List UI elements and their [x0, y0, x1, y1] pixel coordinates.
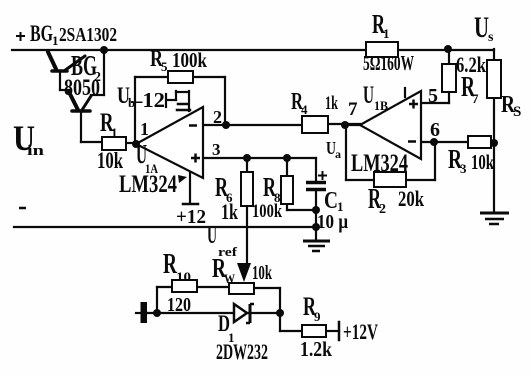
svg-text:10k: 10k [471, 150, 494, 174]
svg-text:+12: +12 [176, 206, 206, 228]
svg-text:2SA1302: 2SA1302 [59, 24, 117, 46]
svg-text:120: 120 [167, 294, 191, 316]
svg-text:1B: 1B [374, 98, 388, 113]
svg-text:U: U [474, 11, 489, 44]
svg-text:–12: –12 [130, 88, 165, 112]
svg-text:8050: 8050 [64, 75, 100, 100]
svg-text:100k: 100k [172, 48, 207, 72]
svg-text:1: 1 [140, 119, 149, 139]
svg-text:3: 3 [212, 140, 221, 159]
svg-text:+12V: +12V [343, 319, 378, 344]
svg-text:U: U [363, 82, 374, 109]
svg-text:5: 5 [161, 59, 168, 74]
svg-text:1k: 1k [325, 93, 338, 114]
svg-text:10k: 10k [97, 148, 123, 173]
svg-text:2: 2 [213, 107, 222, 127]
svg-text:5: 5 [428, 85, 438, 107]
svg-text:1.2k: 1.2k [300, 337, 332, 361]
svg-text:9: 9 [314, 309, 321, 324]
svg-text:1k: 1k [221, 199, 239, 224]
svg-text:a: a [335, 147, 341, 161]
svg-text:10: 10 [176, 269, 191, 284]
svg-text:1: 1 [111, 125, 118, 140]
svg-text:4: 4 [301, 102, 308, 117]
svg-text:3: 3 [460, 161, 467, 176]
svg-text:6: 6 [430, 119, 440, 141]
svg-text:s: s [488, 30, 494, 45]
svg-text:10k: 10k [252, 262, 273, 284]
svg-text:5Ω160W: 5Ω160W [363, 51, 414, 75]
svg-text:LM324: LM324 [119, 171, 177, 198]
svg-text:U: U [207, 222, 217, 249]
svg-text:1: 1 [52, 33, 59, 48]
svg-text:in: in [27, 143, 45, 159]
svg-text:W: W [224, 271, 235, 286]
svg-text:20k: 20k [398, 186, 425, 211]
svg-text:BG: BG [30, 21, 53, 46]
svg-text:2DW232: 2DW232 [216, 339, 268, 364]
svg-text:7: 7 [472, 91, 479, 106]
svg-text:S: S [513, 104, 521, 120]
svg-text:2: 2 [379, 202, 386, 217]
svg-text:1: 1 [383, 26, 390, 41]
svg-text:LM324: LM324 [351, 150, 408, 177]
svg-text:100k: 100k [252, 201, 282, 222]
svg-text:10 μ: 10 μ [317, 211, 349, 233]
svg-text:7: 7 [348, 99, 358, 120]
